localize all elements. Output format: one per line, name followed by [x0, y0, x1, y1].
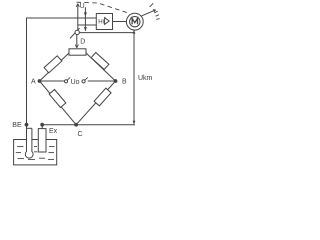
bridge edge A to C: [40, 81, 77, 125]
arrow terminal left of Uo: [64, 80, 67, 83]
resistor R1 (upper left arm): [44, 56, 62, 73]
pointer needle with scale ticks: [141, 10, 156, 16]
bridge edge A to potentiometer: [40, 53, 70, 81]
svg-text:A: A: [31, 79, 36, 86]
resistor R2 (upper right arm): [91, 53, 109, 70]
svg-text:Hi: Hi: [98, 18, 104, 25]
arrow terminal right of Uo: [82, 80, 85, 83]
bottom rail from Ex electrode through C: [42, 124, 135, 126]
node B: [114, 79, 118, 83]
wiper node symbol (circle with diagonal stroke): [70, 28, 80, 38]
wire amplifier output to motor: [113, 21, 127, 23]
wire A-B diagonal (bridge measuring diagonal): [40, 80, 64, 82]
voltage arrow pair (downward) at amplifier input: [84, 7, 86, 31]
svg-text:BE: BE: [12, 122, 22, 129]
terminal Ex: [40, 123, 44, 127]
node C: [74, 123, 78, 127]
beaker (measuring vessel): [14, 140, 57, 165]
mechanical link (dashed) from wiper axis to motor: [77, 2, 130, 13]
motor M (servo indicator): [126, 13, 143, 30]
resistor R4 (lower right arm): [94, 88, 111, 106]
potentiometer R5 (top of bridge): [69, 49, 86, 55]
wire wiper to motor terminal: [79, 32, 134, 34]
svg-text:B: B: [122, 79, 127, 86]
svg-text:Ex: Ex: [49, 128, 58, 135]
svg-text:U: U: [80, 3, 85, 10]
svg-text:C: C: [78, 131, 83, 138]
wire BE riser (left vertical from reference electrode to top): [27, 18, 97, 125]
voltage arrow Ukm (motor terminal down to bottom rail): [133, 31, 135, 124]
potentiometer wiper arrow onto R5: [76, 35, 78, 48]
op-amp U1 (amplifier box Hi▷): [96, 14, 112, 30]
bridge edge B to C: [76, 81, 115, 125]
voltage arrow U (upward): [77, 5, 79, 31]
resistor R3 (lower left arm): [49, 90, 66, 108]
metal electrode Ex: [41, 125, 43, 129]
liquid dashes: [16, 147, 55, 160]
node A: [38, 79, 42, 83]
wire amplifier input 2: [78, 24, 97, 26]
glass electrode BE (tube with bulb): [25, 150, 33, 158]
svg-text:Ukm: Ukm: [138, 75, 153, 82]
bridge edge potentiometer to B: [86, 53, 116, 81]
svg-text:D: D: [80, 39, 85, 46]
terminal BE: [25, 123, 29, 127]
svg-text:Uo: Uo: [71, 79, 80, 86]
